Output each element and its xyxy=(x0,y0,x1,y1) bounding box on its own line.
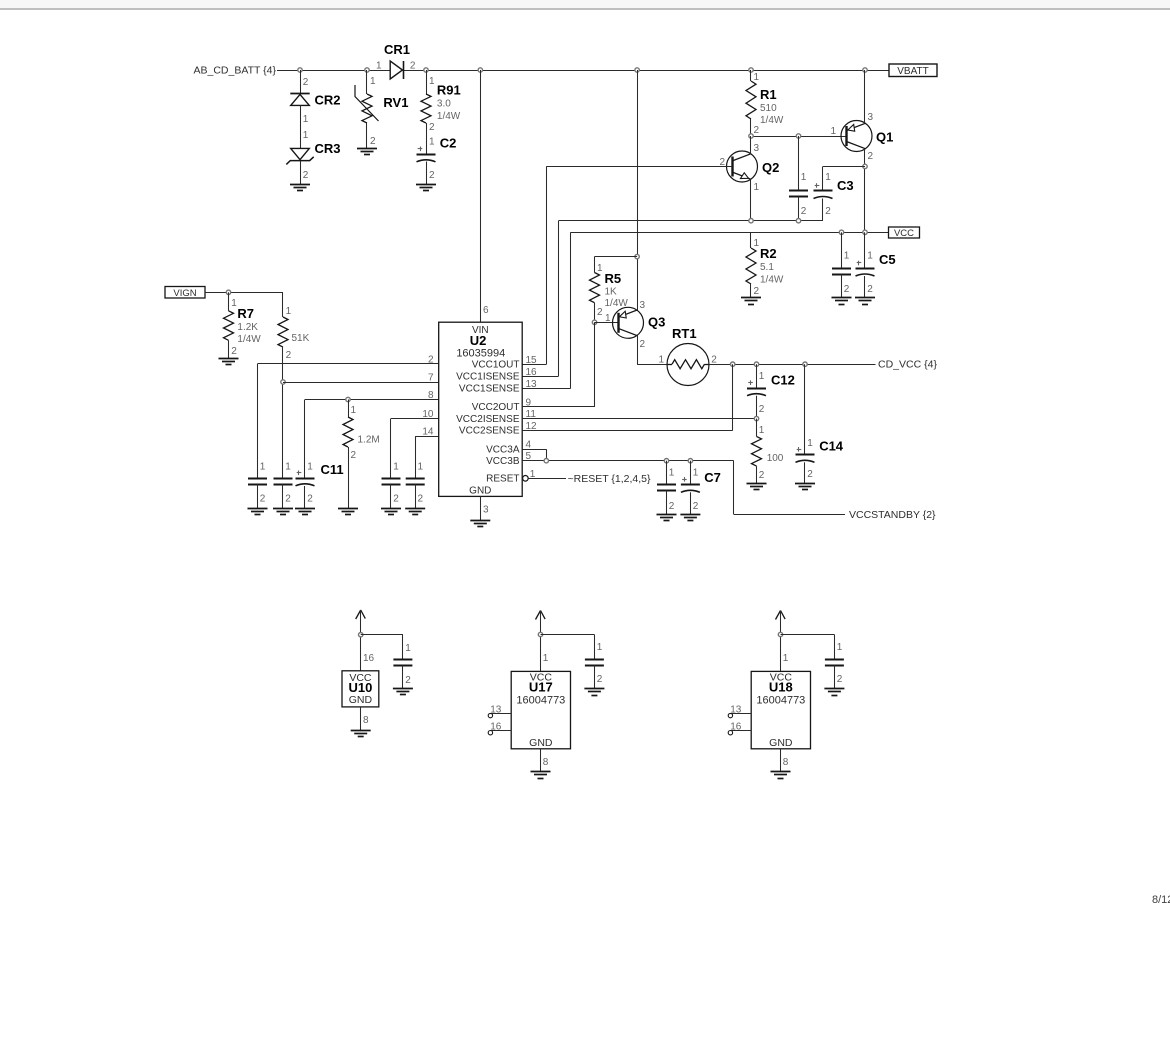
ground under 1.2M xyxy=(338,509,358,515)
wire R2 top xyxy=(750,232,752,248)
U2 pin number 1 xyxy=(530,469,536,480)
ground under 100 xyxy=(747,484,767,490)
pin 2 of C5 xyxy=(867,284,873,295)
ground under C5a xyxy=(832,298,852,305)
pin 1 of cap U18 xyxy=(837,642,843,653)
svg-text:1: 1 xyxy=(429,76,435,87)
junction pin4/pin5 xyxy=(544,459,548,463)
ground under cap x=257.5 xyxy=(248,509,268,515)
label C5 xyxy=(879,252,896,267)
pin 3 of U2 xyxy=(483,505,489,516)
pin 2 of 1.2M xyxy=(351,450,357,461)
svg-text:2: 2 xyxy=(303,170,309,181)
svg-text:1: 1 xyxy=(429,137,435,148)
svg-text:VCC3B: VCC3B xyxy=(486,456,520,467)
svg-text:1: 1 xyxy=(844,251,850,262)
U2 pin name VCC1OUT xyxy=(472,360,520,371)
svg-text:~RESET {1,2,4,5}: ~RESET {1,2,4,5} xyxy=(568,473,651,485)
pin 2 of R1 xyxy=(754,125,760,136)
net label VCCSTANDBY {2} xyxy=(849,509,936,521)
wire U17 GND pin xyxy=(540,749,542,772)
svg-text:1: 1 xyxy=(754,72,760,83)
IC U10 box xyxy=(342,671,379,707)
wire U2 pin 2 line xyxy=(258,364,439,479)
pin 1 of R5 xyxy=(597,263,603,274)
port VBATT xyxy=(889,64,937,77)
svg-text:10: 10 xyxy=(422,409,434,420)
wire CR2 top xyxy=(300,70,302,94)
pin number 16 of U18 xyxy=(730,722,742,733)
wire cap column 798 top xyxy=(798,136,800,191)
pin 8 of U17 xyxy=(543,757,549,768)
pin 1 of C5a xyxy=(844,251,850,262)
wire C12 top xyxy=(756,364,758,388)
svg-text:3: 3 xyxy=(640,300,646,311)
svg-text:R5: R5 xyxy=(605,271,622,286)
svg-text:CR3: CR3 xyxy=(315,141,341,156)
svg-text:1: 1 xyxy=(597,263,603,274)
svg-text:1/4W: 1/4W xyxy=(437,111,461,122)
U17 GND pin name xyxy=(529,737,553,749)
svg-text:1: 1 xyxy=(307,462,313,473)
svg-text:1: 1 xyxy=(605,313,611,324)
wire U17 pin 13 stub xyxy=(491,713,511,715)
junction 51K / U2 pin 7 xyxy=(281,380,285,384)
svg-text:2: 2 xyxy=(418,494,424,505)
label RT1 xyxy=(672,326,697,341)
value 3.0 of R91 xyxy=(437,99,451,110)
pin number 13 of U18 xyxy=(730,705,742,716)
capacitor C12 (polarized) xyxy=(747,380,766,395)
svg-text:8: 8 xyxy=(783,757,789,768)
pin 1 of cap U17 xyxy=(597,642,603,653)
U2 VIN pin name xyxy=(472,325,489,336)
pin 2 of C7 xyxy=(693,501,699,512)
value 1/4W of R2 xyxy=(760,275,784,286)
pin 8 of U18 xyxy=(783,757,789,768)
wire U2 pin 12 line xyxy=(522,364,733,430)
pin 2 of R2 xyxy=(754,286,760,297)
capacitor C7 (polarized) xyxy=(681,477,700,492)
svg-text:1: 1 xyxy=(543,653,549,664)
svg-text:1: 1 xyxy=(260,462,266,473)
junction at R91 column xyxy=(424,68,428,72)
svg-text:1: 1 xyxy=(231,298,237,309)
svg-text:16: 16 xyxy=(490,722,502,733)
U2 pin number 16 xyxy=(526,367,538,378)
U17 VCC pin name xyxy=(530,672,553,684)
pin 3 of Q3 xyxy=(640,300,646,311)
pin 2 of CR3 xyxy=(303,170,309,181)
svg-text:51K: 51K xyxy=(292,333,310,344)
pin 1 of CR1 xyxy=(376,61,382,72)
capacitor at node 798 xyxy=(789,191,808,197)
svg-text:VCC2OUT: VCC2OUT xyxy=(472,402,520,413)
svg-text:2: 2 xyxy=(428,354,434,365)
svg-text:2: 2 xyxy=(393,494,399,505)
pin 1 of cap at x=415.2 xyxy=(418,462,424,473)
svg-text:2: 2 xyxy=(410,61,416,72)
pin 1 of R91 xyxy=(429,76,435,87)
svg-text:GND: GND xyxy=(769,737,793,749)
pin 2 of R7 xyxy=(231,346,237,357)
U2 pin number 15 xyxy=(526,355,538,366)
U2 part number 16035994 xyxy=(456,348,505,360)
wire R91 to C2 xyxy=(426,123,428,154)
pin 2 of cap at x=283 xyxy=(285,494,291,505)
pin 1 of CR3 xyxy=(303,130,309,141)
resistor R1 xyxy=(746,81,756,119)
ground under cap of U10 xyxy=(393,689,413,695)
svg-text:13: 13 xyxy=(526,379,538,390)
U2 pin name VCC3A xyxy=(486,444,520,455)
svg-text:1/4W: 1/4W xyxy=(760,275,784,286)
wire C5a bottom xyxy=(841,275,843,298)
pin 2 of RT1 xyxy=(711,355,717,366)
svg-text:1: 1 xyxy=(393,462,399,473)
wire R5 top link xyxy=(595,257,638,273)
pin number of U18 VCC xyxy=(783,653,789,664)
svg-text:Q1: Q1 xyxy=(876,130,893,145)
svg-text:1: 1 xyxy=(807,438,813,449)
junction Q2 emitter on rail xyxy=(749,219,753,223)
svg-text:1: 1 xyxy=(801,172,807,183)
svg-text:1: 1 xyxy=(783,653,789,664)
pin 2 of CR1 xyxy=(410,61,416,72)
svg-text:2: 2 xyxy=(711,355,717,366)
wire cap of U17 to ground xyxy=(594,665,596,689)
ground under RV1 xyxy=(357,149,377,155)
svg-text:2: 2 xyxy=(351,450,357,461)
wire Q2 collector up xyxy=(750,136,752,154)
svg-text:2: 2 xyxy=(759,404,765,415)
value 1/4W of R5 xyxy=(605,298,629,309)
top toolbar band xyxy=(0,0,1170,9)
value 100 xyxy=(767,453,784,464)
svg-text:VCC3A: VCC3A xyxy=(486,444,520,455)
wire U18 GND pin xyxy=(780,749,782,772)
svg-text:3: 3 xyxy=(868,112,874,123)
wire C5 bottom xyxy=(864,276,866,298)
wire RESET net xyxy=(528,478,566,480)
varistor RV1 xyxy=(355,85,379,123)
svg-text:2: 2 xyxy=(307,494,313,505)
junction at Q3 column xyxy=(635,68,639,72)
resistor 51K xyxy=(278,317,288,347)
junction pin12 riser on CD_VCC xyxy=(731,362,735,366)
label Q2 xyxy=(762,160,779,175)
svg-text:2: 2 xyxy=(285,494,291,505)
wire 100 to ground xyxy=(756,466,758,483)
pin 2 of 51K resistor xyxy=(286,350,292,361)
U10 GND pin name xyxy=(349,694,373,706)
IC U17 box xyxy=(511,671,570,748)
U2 pin number 5 xyxy=(526,451,532,462)
IC U2 box xyxy=(439,322,523,496)
wire power arrow to U17 xyxy=(540,611,542,672)
wire U2 pin 14 line xyxy=(415,436,439,478)
capacitor C11 (polarized) xyxy=(296,471,315,486)
transistor Q3 (PNP) xyxy=(613,307,644,338)
wire Q2 base line from U2 pin 15 xyxy=(522,166,732,364)
svg-text:2: 2 xyxy=(825,206,831,217)
U2 pin number 11 xyxy=(526,409,537,420)
junction R5 top xyxy=(635,254,639,258)
pin 2 of R91 xyxy=(429,122,435,133)
U2 pin name VCC2ISENSE xyxy=(456,414,520,425)
wire RV1 to ground xyxy=(366,123,368,149)
capacitor C5 (polarized) xyxy=(856,261,875,276)
junction Q3 base node xyxy=(592,320,596,324)
svg-text:15: 15 xyxy=(526,355,538,366)
svg-text:VBATT: VBATT xyxy=(897,66,928,77)
label C2 xyxy=(440,136,457,151)
U2 left pin number 2 xyxy=(428,354,434,365)
value 1/4W of R7 xyxy=(237,334,261,345)
svg-text:GND: GND xyxy=(349,694,373,706)
pin 1 of R1 xyxy=(754,72,760,83)
wire cap x=391 to ground xyxy=(390,484,392,508)
diode CR3 (zener) xyxy=(286,148,313,164)
value 510 of R1 xyxy=(760,103,777,114)
wire power arrow to U18 xyxy=(780,611,782,672)
label CR3 xyxy=(315,141,341,156)
svg-text:RESET: RESET xyxy=(486,474,519,485)
junction Q1 collector on VCC rail xyxy=(863,230,867,234)
wire R1 to Q1 base node xyxy=(750,119,752,136)
wire AB_CD_BATT rail right of CR1 to VBATT xyxy=(404,70,889,72)
pin 1 of C14 xyxy=(807,438,813,449)
capacitor C7a xyxy=(657,485,676,491)
net label ~RESET {1,2,4,5} xyxy=(568,473,651,485)
pin 2 of Q3 xyxy=(640,339,646,350)
svg-text:2: 2 xyxy=(370,136,376,147)
svg-text:1: 1 xyxy=(286,306,292,317)
junction at U2 VIN column xyxy=(478,68,482,72)
svg-text:2: 2 xyxy=(597,674,603,685)
U18 part number xyxy=(756,695,805,707)
pin 3 of Q1 xyxy=(868,112,874,123)
wire R5 to Q3 base xyxy=(594,303,596,323)
pin number 16 of U17 xyxy=(490,722,502,733)
svg-text:2: 2 xyxy=(801,206,807,217)
pin 1 of C5 xyxy=(867,251,873,262)
wire 51K top xyxy=(282,292,284,317)
ground under cap of U18 xyxy=(824,689,844,696)
pin 1 of R7 xyxy=(231,298,237,309)
svg-text:8: 8 xyxy=(363,715,369,726)
svg-text:U10: U10 xyxy=(348,680,372,695)
resistor R7 xyxy=(224,311,234,341)
value 1.2M xyxy=(358,435,380,446)
U17 pin 16 open end xyxy=(488,731,492,735)
svg-text:C12: C12 xyxy=(771,373,795,388)
wire 1.2M to ground xyxy=(348,447,350,508)
wire R1 top xyxy=(750,70,752,81)
pin 6 of U2 xyxy=(483,305,489,316)
pin 2 of Q2 xyxy=(719,157,725,168)
pin 2 of C7a xyxy=(669,501,675,512)
svg-text:7: 7 xyxy=(428,373,434,384)
pin 8 of U10 xyxy=(363,715,369,726)
svg-text:1: 1 xyxy=(303,114,309,125)
pin 1 of cap U10 xyxy=(405,643,411,654)
junction power node U17 xyxy=(538,632,542,636)
svg-text:510: 510 xyxy=(760,103,777,114)
ground under CR3 xyxy=(290,185,310,191)
svg-text:1: 1 xyxy=(418,462,424,473)
label CR2 xyxy=(315,93,341,108)
svg-text:2: 2 xyxy=(429,170,435,181)
U2 left pin number 8 xyxy=(428,390,434,401)
ground under R7 xyxy=(219,359,239,365)
pin 1 of C7a xyxy=(669,468,675,479)
svg-text:16: 16 xyxy=(730,722,742,733)
wire C5a top xyxy=(841,232,843,268)
label C11 xyxy=(321,462,344,477)
ground under U17 xyxy=(531,772,551,779)
svg-text:2: 2 xyxy=(231,346,237,357)
svg-text:C14: C14 xyxy=(819,439,844,454)
capacitor bypass capacitor at x=415.2 xyxy=(406,479,425,485)
wire Q2 emitter down xyxy=(750,179,752,221)
capacitor bypass capacitor at x=283 xyxy=(274,479,293,485)
ground under cap x=391 xyxy=(381,509,401,515)
pin 2 of CR2 xyxy=(303,77,309,88)
wire C12 bottom xyxy=(756,396,758,419)
wire cap x=415.2 to ground xyxy=(415,484,417,508)
U2 pin name VCC1SENSE xyxy=(459,384,520,395)
svg-text:1: 1 xyxy=(759,425,765,436)
wire C5 top xyxy=(864,232,866,268)
pin 2 of cap U17 xyxy=(597,674,603,685)
transistor Q1 (PNP) xyxy=(841,121,872,152)
svg-text:2: 2 xyxy=(429,122,435,133)
svg-text:1.2M: 1.2M xyxy=(358,435,380,446)
junction bypass cap on rail xyxy=(796,219,800,223)
U2 pin name VCC2SENSE xyxy=(459,426,520,437)
U2 GND pin name xyxy=(469,486,491,497)
pin number 13 of U17 xyxy=(490,705,502,716)
wire U10 GND pin xyxy=(360,707,362,730)
U2 left pin number 14 xyxy=(422,427,434,438)
label C14 xyxy=(819,439,844,454)
pin number of U17 VCC xyxy=(543,653,549,664)
svg-text:1: 1 xyxy=(825,172,831,183)
wire U18 pin 16 stub xyxy=(731,730,751,732)
wire cap x=283 to ground xyxy=(282,484,284,508)
svg-text:14: 14 xyxy=(422,427,434,438)
svg-text:CR1: CR1 xyxy=(384,42,410,57)
svg-text:3: 3 xyxy=(483,505,489,516)
wire U2 pin 7 line xyxy=(283,382,439,384)
value 51K xyxy=(292,333,310,344)
svg-text:R7: R7 xyxy=(237,306,254,321)
svg-text:1: 1 xyxy=(658,355,664,366)
capacitor bypass of U18 xyxy=(825,660,844,666)
svg-text:2: 2 xyxy=(286,350,292,361)
svg-text:2: 2 xyxy=(640,339,646,350)
svg-text:1: 1 xyxy=(669,468,675,479)
wire CR3 to ground xyxy=(300,161,302,185)
wire C2 to ground xyxy=(426,162,428,185)
wire U2 pin 10 line xyxy=(391,419,439,479)
wire AB_CD_BATT rail left of CR1 xyxy=(277,70,391,72)
net label CD_VCC {4} xyxy=(878,359,937,371)
ground under C5 xyxy=(855,298,875,305)
resistor R2 xyxy=(746,248,756,284)
svg-text:R91: R91 xyxy=(437,83,461,98)
pin 2 of bypass cap xyxy=(801,206,807,217)
pin 2 of C14 xyxy=(807,469,813,480)
wire C7 top xyxy=(690,461,692,485)
junction R1/Q2 collector xyxy=(749,134,753,138)
svg-text:2: 2 xyxy=(837,674,843,685)
label Q3 xyxy=(648,315,665,330)
pin 1 of bypass cap xyxy=(801,172,807,183)
wire R7 to ground xyxy=(228,340,230,358)
svg-text:2: 2 xyxy=(693,501,699,512)
wire Q3 collector down xyxy=(637,336,667,365)
label U18 xyxy=(769,680,793,695)
resistor R5 xyxy=(590,273,600,303)
wire U2 pin 8 line xyxy=(305,400,439,479)
wire cap of U10 to ground xyxy=(402,665,404,688)
U18 pin 13 open end xyxy=(728,713,732,717)
capacitor C5a xyxy=(832,269,851,275)
capacitor C3 (polarized) xyxy=(814,183,833,198)
wire C14 top xyxy=(804,364,806,455)
wire U18 pin 13 stub xyxy=(731,713,751,715)
wire Q3 base xyxy=(595,322,619,324)
svg-text:5.1: 5.1 xyxy=(760,262,774,273)
wire 100 top xyxy=(756,419,758,437)
svg-text:CR2: CR2 xyxy=(315,93,341,108)
pin 16 of U10 xyxy=(363,653,375,664)
wire C7a bottom xyxy=(666,491,668,515)
ground under cap x=305 xyxy=(295,509,315,515)
ground under C14 xyxy=(795,484,815,490)
junction C7 on rail xyxy=(688,459,692,463)
capacitor bypass of U10 xyxy=(393,660,412,666)
svg-text:1: 1 xyxy=(830,126,836,137)
wire Q1 emitter to VBATT rail xyxy=(864,70,866,123)
svg-text:1: 1 xyxy=(693,468,699,479)
pin 1 of Q2 xyxy=(754,182,760,193)
wire Q1 base line xyxy=(751,136,847,138)
junction at R1 column xyxy=(749,68,753,72)
svg-text:2: 2 xyxy=(844,284,850,295)
pin 1 of cap at x=391 xyxy=(393,462,399,473)
ground under R2 xyxy=(741,298,761,305)
resistor R91 xyxy=(421,94,431,123)
wire cap column 798 bottom xyxy=(798,197,800,221)
svg-text:1: 1 xyxy=(759,371,765,382)
ground under cap x=283 xyxy=(273,509,293,515)
wire CR2 to CR3 xyxy=(300,105,302,148)
svg-text:1: 1 xyxy=(754,182,760,193)
svg-text:VCC2ISENSE: VCC2ISENSE xyxy=(456,414,520,425)
pin 1 of R2 xyxy=(754,238,760,249)
svg-text:VCCSTANDBY {2}: VCCSTANDBY {2} xyxy=(849,509,936,521)
U2 left pin number 10 xyxy=(422,409,434,420)
label RV1 xyxy=(383,95,408,110)
pin 1 of C7 xyxy=(693,468,699,479)
svg-text:U17: U17 xyxy=(529,680,553,695)
wire Q3 emitter column xyxy=(637,70,639,311)
svg-text:3.0: 3.0 xyxy=(437,99,451,110)
wire U2 pin 5 / VCCSTANDBY rail xyxy=(522,461,845,515)
